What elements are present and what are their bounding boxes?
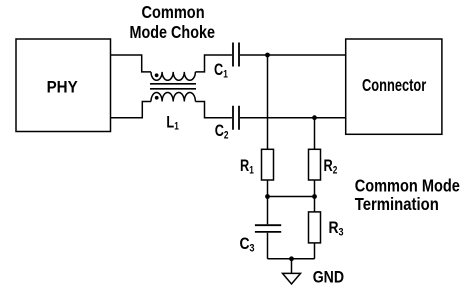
PHY box bbox=[16, 39, 111, 132]
wire: mid rail bbox=[268, 196, 315, 198]
capacitor C1 bbox=[233, 43, 239, 67]
svg-text:Mode Choke: Mode Choke bbox=[130, 23, 216, 43]
wire: choke bottom to C2 bbox=[195, 102, 232, 118]
capacitor C3 bbox=[255, 225, 281, 232]
node: C2/R2 junction bbox=[312, 115, 317, 120]
wire: PHY to choke top bbox=[111, 55, 152, 72]
wire: bottom rail bbox=[268, 258, 315, 260]
node: mid rail right bbox=[312, 194, 317, 199]
resistor R2 bbox=[309, 149, 321, 180]
ground bbox=[283, 273, 301, 284]
wire: choke top to C1 bbox=[195, 55, 232, 72]
svg-text:GND: GND bbox=[313, 269, 344, 287]
svg-text:PHY: PHY bbox=[47, 78, 78, 97]
wire: R3 to bottom rail bbox=[314, 243, 316, 259]
wire: C2 junction down to R2 bbox=[314, 118, 316, 150]
Connector box bbox=[346, 39, 442, 134]
node: ground tap bbox=[289, 256, 294, 261]
wire: top junction down to R1 bbox=[267, 55, 269, 149]
wire: PHY to choke bottom bbox=[111, 102, 152, 118]
svg-text:Common: Common bbox=[142, 3, 205, 23]
wire: C3 to bottom rail bbox=[267, 233, 269, 259]
wire: ground stem bbox=[291, 259, 293, 274]
svg-text:Connector: Connector bbox=[362, 76, 426, 96]
phase dot (top winding) bbox=[155, 73, 159, 77]
resistor R1 bbox=[262, 149, 274, 180]
inductor L1 bottom winding bbox=[151, 92, 195, 101]
wire: mid rail to C3 bbox=[267, 197, 269, 225]
node: C1/R1 junction bbox=[265, 53, 270, 58]
node: mid rail left bbox=[265, 194, 270, 199]
wire: C2 to Connector bbox=[240, 117, 346, 119]
svg-text:Termination: Termination bbox=[355, 194, 439, 215]
wire: C1 to Connector bbox=[240, 54, 346, 56]
wire: R2 to mid rail bbox=[314, 180, 316, 197]
inductor L1 top winding bbox=[151, 72, 195, 80]
phase dot (bottom winding) bbox=[155, 96, 159, 100]
capacitor C2 bbox=[233, 106, 239, 130]
wire: R1 to mid rail bbox=[267, 180, 269, 197]
wire: mid rail to R3 bbox=[314, 197, 316, 212]
choke core bbox=[150, 84, 196, 89]
resistor R3 bbox=[309, 212, 321, 243]
